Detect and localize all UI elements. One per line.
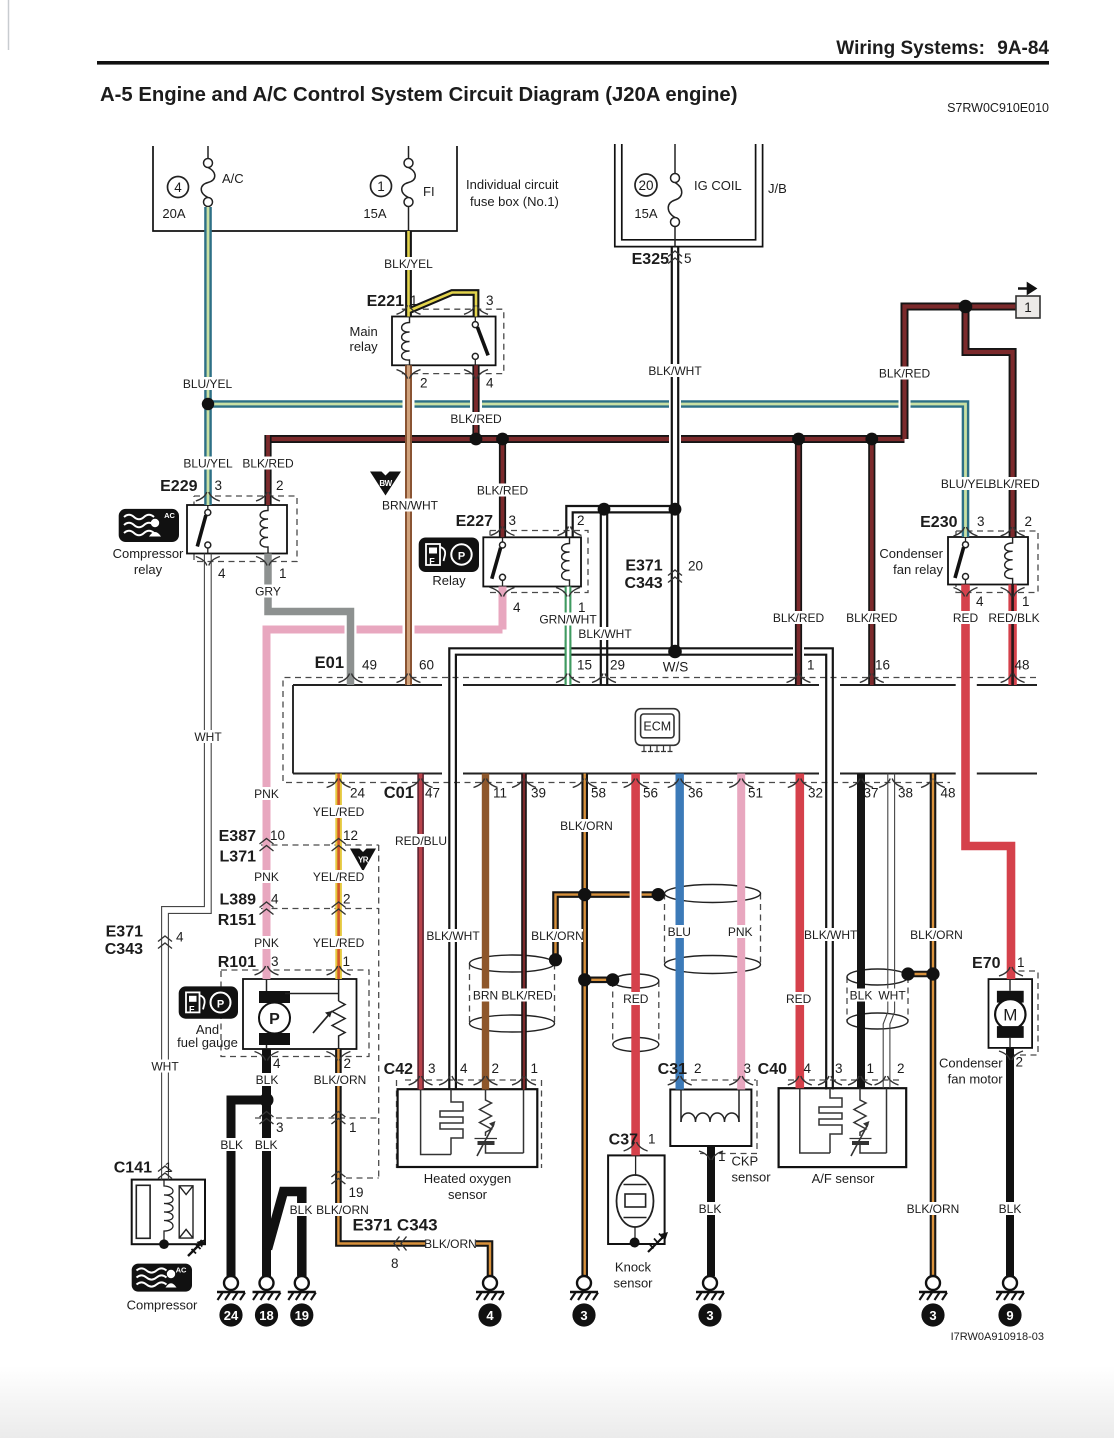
svg-text:A-5 Engine and A/C Control Sys: A-5 Engine and A/C Control System Circui… xyxy=(100,84,737,106)
svg-text:3: 3 xyxy=(580,1308,587,1323)
svg-text:4: 4 xyxy=(976,594,984,609)
svg-text:20: 20 xyxy=(638,178,653,193)
relay E229 coil-switch dashed link xyxy=(217,528,258,530)
relay E229 coil xyxy=(260,505,268,554)
wire BLK/ORN (ECM pin 48 to ground 3) xyxy=(930,774,937,1277)
svg-text:15A: 15A xyxy=(634,206,657,221)
ECM box edges (with pass-through gaps) xyxy=(293,685,1037,774)
wire RED (E230 pin 4 through ECM to E70 pin 1) xyxy=(966,585,1012,980)
wire BLK/RED E221 pin 4 to bus xyxy=(472,365,479,439)
svg-text:sensor: sensor xyxy=(448,1187,488,1202)
svg-text:BLK: BLK xyxy=(290,1203,313,1217)
svg-text:E230: E230 xyxy=(920,514,957,531)
svg-text:BLK/YEL: BLK/YEL xyxy=(384,257,433,271)
svg-text:4: 4 xyxy=(460,1061,468,1076)
wire GRY (E229 pin 1 to ECM pin 49) xyxy=(268,554,351,686)
relay E229 dashed outline xyxy=(194,496,297,562)
shield cylinder sides BLU/PNK xyxy=(665,894,761,965)
svg-text:3: 3 xyxy=(271,954,279,969)
fuel gauge sender R101 xyxy=(285,979,345,1049)
svg-text:4: 4 xyxy=(174,180,182,195)
label BLK/WHT c42 xyxy=(426,929,480,943)
svg-text:fan relay: fan relay xyxy=(893,562,943,577)
label BLK R101 pin4 xyxy=(254,1073,280,1087)
node ECM pin16 on bus xyxy=(865,433,878,446)
svg-text:YR: YR xyxy=(358,856,369,865)
svg-text:P: P xyxy=(269,1011,280,1028)
svg-text:32: 32 xyxy=(808,786,823,801)
wire BRN/WHT (E221 pin 2 to ECM pin 60) xyxy=(405,365,412,685)
svg-text:CKP: CKP xyxy=(732,1154,759,1169)
label BLK/RED shield xyxy=(501,989,553,1003)
svg-text:9A-84: 9A-84 xyxy=(997,38,1049,59)
svg-text:C343: C343 xyxy=(105,941,143,958)
wire GRN/WHT overlay at splice crossing xyxy=(565,640,572,685)
svg-text:E325: E325 xyxy=(632,251,669,268)
compressor relay E229 box xyxy=(187,505,287,554)
svg-text:BLK/ORN: BLK/ORN xyxy=(560,819,613,833)
svg-text:E227: E227 xyxy=(456,513,493,530)
label BLK/WHT pin29 xyxy=(578,627,632,641)
relay E230 coil xyxy=(1005,537,1013,585)
svg-text:BLK/RED: BLK/RED xyxy=(879,367,931,381)
node BLK/WHT branch E325 xyxy=(669,503,682,516)
svg-text:RED/BLU: RED/BLU xyxy=(395,834,447,848)
fuel pump R101 motor xyxy=(259,979,290,1049)
svg-text:fuse box (No.1): fuse box (No.1) xyxy=(470,194,559,209)
svg-text:I7RW0A910918-03: I7RW0A910918-03 xyxy=(951,1331,1044,1343)
wire BLK/RED bus xyxy=(268,435,905,443)
svg-text:YEL/RED: YEL/RED xyxy=(313,870,365,884)
connector L389 R151 dashed line xyxy=(261,908,379,910)
label BLK/RED pin16 xyxy=(846,611,898,625)
label BLK/ORN drain xyxy=(531,929,584,943)
svg-text:1: 1 xyxy=(578,600,586,615)
wire BLK/RED (ECM pin 39 to C42 pin 1) xyxy=(521,774,527,1090)
node BLK/WHT shield drain xyxy=(901,967,914,980)
relay E227 switch xyxy=(492,537,506,586)
svg-text:BLK/RED: BLK/RED xyxy=(501,989,553,1003)
svg-text:BLK/RED: BLK/RED xyxy=(846,611,898,625)
pin marks E01 row xyxy=(339,674,363,683)
label BLK/RED at E230 xyxy=(988,477,1040,491)
C42 connector dashed line xyxy=(405,1079,536,1081)
node BLK/ORN 48 stub xyxy=(926,967,939,980)
svg-text:2: 2 xyxy=(1016,1055,1024,1070)
label RED/BLK pin1 E230 xyxy=(988,611,1039,625)
svg-text:sensor: sensor xyxy=(613,1276,653,1291)
svg-text:2: 2 xyxy=(897,1061,905,1076)
svg-text:Condenser: Condenser xyxy=(879,546,943,561)
pin marks C42 3,4,2,1 xyxy=(409,1076,433,1085)
svg-text:BLK/ORN: BLK/ORN xyxy=(314,1073,367,1087)
svg-text:16: 16 xyxy=(875,658,890,673)
relay E230 switch xyxy=(955,537,969,585)
svg-text:WHT: WHT xyxy=(194,730,222,744)
relay E221 coil xyxy=(402,317,410,366)
relay E230 dashed outline xyxy=(956,531,1038,593)
shield cylinder RED xyxy=(613,974,659,988)
wire BRN (ECM pin 11 to C42 pin 2) xyxy=(482,774,489,1090)
node W/S splice xyxy=(668,645,682,659)
node BLU/YEL junction xyxy=(202,398,214,410)
pin marks E325 5 xyxy=(668,251,682,264)
svg-text:12: 12 xyxy=(343,828,358,843)
svg-text:10: 10 xyxy=(270,828,285,843)
relay E227 coil-switch dashed link xyxy=(512,562,558,564)
svg-text:4: 4 xyxy=(273,1056,281,1071)
BW triangle marker xyxy=(370,472,401,496)
svg-text:Individual circuit: Individual circuit xyxy=(466,177,559,192)
svg-text:BRN: BRN xyxy=(473,989,498,1003)
connector E387 L371 dashed line xyxy=(261,844,379,846)
label BLK/RED above bus xyxy=(450,412,502,426)
svg-text:YEL/RED: YEL/RED xyxy=(313,936,365,950)
pin marks R101 pigtail 3,1 xyxy=(260,1112,274,1125)
fuel pump icon at R101 xyxy=(179,986,238,1018)
svg-text:19: 19 xyxy=(349,1185,364,1200)
label BLK/RED at E227 xyxy=(477,484,529,498)
label BLK/YEL xyxy=(384,257,433,271)
svg-text:1: 1 xyxy=(377,179,385,194)
ground 18 xyxy=(253,1276,281,1327)
svg-text:1: 1 xyxy=(867,1061,875,1076)
svg-text:37: 37 xyxy=(864,786,879,801)
label BLK gnd18 xyxy=(253,1138,279,1152)
label BLK gnd24 xyxy=(219,1138,245,1152)
svg-text:GRY: GRY xyxy=(255,585,281,599)
wire PNK (ECM pin 51 to C31 pin 3) xyxy=(737,774,745,1090)
wire WHT (E229 pin 4 to C141 pin 1) xyxy=(162,554,212,1180)
svg-text:3: 3 xyxy=(929,1308,936,1323)
wire WHT (ECM pin 38 to C40 pin 2) xyxy=(883,774,894,1089)
svg-text:1: 1 xyxy=(531,1061,539,1076)
ground 3 (BLK/ORN 48) xyxy=(919,1276,947,1327)
svg-text:20: 20 xyxy=(688,559,703,574)
label BLK/RED pin1 xyxy=(773,611,825,625)
svg-text:1: 1 xyxy=(410,293,418,308)
A/C icon at compressor xyxy=(132,1264,192,1292)
svg-text:4: 4 xyxy=(176,930,184,945)
svg-text:51: 51 xyxy=(748,786,763,801)
svg-text:BLK/WHT: BLK/WHT xyxy=(578,627,632,641)
label RED shield xyxy=(622,992,650,1006)
svg-text:S7RW0C910E010: S7RW0C910E010 xyxy=(947,101,1049,115)
ground 9 xyxy=(996,1276,1024,1327)
label BLK CKP xyxy=(697,1202,723,1216)
label BLK/ORN horizontal xyxy=(424,1237,477,1251)
svg-text:BLK/RED: BLK/RED xyxy=(773,611,825,625)
svg-text:15: 15 xyxy=(577,658,592,673)
pin marks C31 2,3,1 xyxy=(668,1076,692,1085)
svg-text:PNK: PNK xyxy=(254,870,279,884)
ECM connector dashed outline E01/C01 xyxy=(283,678,1036,783)
svg-text:BLK: BLK xyxy=(255,1138,278,1152)
wire BLK/RED branch to E230 pin 2 xyxy=(966,307,1013,538)
svg-text:BLK/RED: BLK/RED xyxy=(242,457,294,471)
label BLK/ORN R101 pin2 xyxy=(314,1073,367,1087)
relay E227 dashed outline xyxy=(490,531,588,593)
wire BLK/ORN shield drain stub to RED shield xyxy=(585,976,613,983)
svg-text:F: F xyxy=(429,557,435,567)
wire PNK (E227 pin 4 to R101 pin 3) xyxy=(267,587,503,980)
svg-text:BLU/YEL: BLU/YEL xyxy=(183,377,233,391)
svg-text:A/C: A/C xyxy=(222,171,244,186)
wire BLK/RED bus to E227 pin 3 xyxy=(499,439,506,537)
wire BLK (C31 pin 1 to ground 3) xyxy=(707,1146,715,1276)
label PNK row3 xyxy=(253,936,280,950)
svg-text:RED/BLK: RED/BLK xyxy=(988,611,1039,625)
wire BLK branch to ground 19 xyxy=(268,1192,302,1277)
wire BLK/RED bus to E229 pin 2 xyxy=(264,435,271,505)
svg-text:38: 38 xyxy=(898,786,913,801)
svg-text:47: 47 xyxy=(425,786,440,801)
header: Wiring Systems: 9A-84 xyxy=(97,38,1049,65)
svg-text:BRN/WHT: BRN/WHT xyxy=(382,499,439,513)
svg-text:BLK: BLK xyxy=(699,1202,722,1216)
svg-text:3: 3 xyxy=(509,513,517,528)
svg-text:4: 4 xyxy=(513,600,521,615)
knock sensor C37 box xyxy=(608,1155,665,1244)
svg-text:WHT: WHT xyxy=(878,989,906,1003)
svg-text:4: 4 xyxy=(486,1308,494,1323)
svg-text:1: 1 xyxy=(1024,300,1032,315)
svg-text:sensor: sensor xyxy=(732,1170,772,1185)
svg-text:RED: RED xyxy=(786,992,812,1006)
CKP sensor C31 coil xyxy=(681,1090,739,1147)
svg-text:3: 3 xyxy=(977,514,985,529)
svg-text:L371: L371 xyxy=(220,849,257,866)
svg-text:3: 3 xyxy=(215,478,223,493)
node ECM pin1 on bus xyxy=(792,433,805,446)
label BLK/ORN 58 xyxy=(560,819,613,833)
pin marks L389 R151 4,2 xyxy=(260,902,274,915)
svg-text:Knock: Knock xyxy=(615,1260,652,1275)
label BLU/YEL upper xyxy=(183,377,233,391)
C31 connector dashed line xyxy=(670,1080,757,1154)
svg-text:5: 5 xyxy=(684,251,692,266)
svg-text:3: 3 xyxy=(744,1061,752,1076)
chassis ground arrow at C37 xyxy=(648,1232,668,1252)
svg-text:15A: 15A xyxy=(363,206,386,221)
wire YEL/RED (ECM pin 24 to R101 pin 1) xyxy=(335,774,342,980)
svg-text:BLK/WHT: BLK/WHT xyxy=(426,929,480,943)
svg-text:20A: 20A xyxy=(162,206,185,221)
shield cylinder BLK/WHT xyxy=(847,969,908,985)
heated oxygen sensor box xyxy=(398,1089,538,1167)
svg-text:BW: BW xyxy=(379,479,392,488)
label RED pin4 E230 xyxy=(952,611,980,625)
wire BLK (E70 pin 2 to ground 9) xyxy=(1006,1048,1014,1276)
pin marks E227 3,2,4,1 xyxy=(491,527,515,536)
fuel pump R101 box xyxy=(243,979,357,1049)
svg-text:PNK: PNK xyxy=(254,936,279,950)
label WHT shield xyxy=(877,989,907,1003)
wire BLK/WHT (IG coil E325 to W/S splice) xyxy=(672,247,678,652)
ground 4 xyxy=(476,1276,504,1327)
svg-text:3: 3 xyxy=(428,1061,436,1076)
node BLK/RED top branch xyxy=(959,300,973,314)
svg-text:BLU: BLU xyxy=(668,925,691,939)
node BLK/ORN 58 lower branch xyxy=(578,973,591,986)
node RED shield drain xyxy=(606,973,619,986)
pin marks E221 1,3,2,4 xyxy=(397,305,421,314)
relay E227 coil xyxy=(562,537,570,586)
svg-text:3: 3 xyxy=(486,293,494,308)
pin marks C141 1 xyxy=(158,1166,172,1179)
label BRN shield xyxy=(472,989,499,1003)
ground 3 (CKP) xyxy=(696,1276,724,1327)
svg-text:1: 1 xyxy=(1017,955,1025,970)
pin marks E230 3,2,4,1 xyxy=(954,527,978,536)
svg-text:1: 1 xyxy=(1022,594,1030,609)
svg-text:BLK/ORN: BLK/ORN xyxy=(424,1237,477,1251)
svg-text:BLK/WHT: BLK/WHT xyxy=(648,364,702,378)
svg-text:E371: E371 xyxy=(625,558,662,575)
svg-text:BLK: BLK xyxy=(999,1202,1022,1216)
svg-text:E01: E01 xyxy=(315,654,344,672)
label WHT lower xyxy=(150,1060,180,1074)
svg-text:BLK/WHT: BLK/WHT xyxy=(804,928,858,942)
svg-text:C343: C343 xyxy=(624,575,662,592)
label BLK/ORN 19 xyxy=(316,1203,369,1217)
svg-text:fan motor: fan motor xyxy=(948,1072,1004,1087)
node BLK/WHT branch 29 xyxy=(598,503,611,516)
wire GRN/WHT (E227 pin 1 to ECM pin 15) xyxy=(565,587,572,686)
label RED/BLU xyxy=(395,834,447,848)
wire BLK/ORN (R101 pin 2 to ground 4) xyxy=(338,1049,490,1276)
svg-text:IG COIL: IG COIL xyxy=(694,178,742,193)
svg-text:4: 4 xyxy=(486,376,494,391)
label WHT upper xyxy=(193,730,223,744)
svg-text:RED: RED xyxy=(623,992,649,1006)
svg-text:E387: E387 xyxy=(219,828,256,845)
svg-text:relay: relay xyxy=(134,562,163,577)
A/F sensor internals xyxy=(800,1088,887,1156)
pin marks E371 C343 8 (horizontal) xyxy=(394,1237,407,1251)
node E227 pin3 on bus xyxy=(496,433,509,446)
label BLK E70 xyxy=(997,1202,1023,1216)
svg-text:1: 1 xyxy=(165,1160,173,1175)
svg-text:BLK: BLK xyxy=(256,1073,279,1087)
wire BLK/WHT (E227 pin 2 branch) xyxy=(566,506,675,537)
E70 dashed outline xyxy=(1008,971,1038,1055)
label BLU/YEL at E230 xyxy=(941,477,991,491)
svg-text:1: 1 xyxy=(807,658,815,673)
node BLU/PNK shield drain xyxy=(652,888,665,901)
shield cylinder sides BLK/WHT xyxy=(847,977,908,1021)
svg-text:R151: R151 xyxy=(218,912,256,929)
ground 3 (BLK/ORN 58) xyxy=(570,1276,598,1327)
shield cylinder sides BRN/BLKRED xyxy=(470,964,555,1024)
svg-text:48: 48 xyxy=(1015,658,1030,673)
node E221 pin4 on bus xyxy=(470,433,483,446)
svg-text:Compressor: Compressor xyxy=(127,1298,198,1313)
svg-text:2: 2 xyxy=(420,376,428,391)
svg-text:AC: AC xyxy=(176,1266,187,1275)
wire BLK/WHT splice bus through ECM to C42 pin 4 xyxy=(449,648,833,1089)
svg-text:Condenser: Condenser xyxy=(939,1056,1003,1071)
svg-text:24: 24 xyxy=(350,786,366,801)
relay E221 switch xyxy=(472,317,488,366)
svg-text:FI: FI xyxy=(423,184,435,199)
label BLU shield xyxy=(666,925,692,939)
fuse 20 15A IG COIL xyxy=(668,144,682,247)
fuse 1 15A FI xyxy=(402,146,416,231)
svg-text:1: 1 xyxy=(349,1120,357,1135)
svg-text:BLK/ORN: BLK/ORN xyxy=(907,1202,960,1216)
svg-text:58: 58 xyxy=(591,786,606,801)
svg-text:2: 2 xyxy=(577,513,585,528)
svg-text:R101: R101 xyxy=(218,954,256,971)
label BLK shield xyxy=(848,989,874,1003)
wire BLU (ECM pin 36 to C31 pin 2) xyxy=(676,774,684,1090)
label YEL/RED row3 xyxy=(313,936,365,950)
svg-text:36: 36 xyxy=(688,786,703,801)
svg-text:RED: RED xyxy=(953,611,979,625)
fuel pump icon at relay E227 xyxy=(419,538,479,573)
svg-text:Wiring Systems:: Wiring Systems: xyxy=(836,38,985,59)
shield cylinder BRN/BLKRED xyxy=(470,955,555,972)
compressor clutch C141 internals xyxy=(136,1180,193,1241)
svg-text:BLK: BLK xyxy=(850,989,873,1003)
label BLK/WHT E325 xyxy=(648,364,702,378)
svg-text:9: 9 xyxy=(1006,1308,1013,1323)
knock sensor C37 internals xyxy=(617,1155,654,1240)
pin marks C01 row xyxy=(327,779,351,788)
svg-text:YEL/RED: YEL/RED xyxy=(313,805,365,819)
relay E229 switch xyxy=(197,505,211,554)
condenser fan motor E70 internals xyxy=(995,979,1025,1048)
svg-text:1: 1 xyxy=(279,566,287,581)
svg-text:P: P xyxy=(217,999,224,1011)
svg-text:1: 1 xyxy=(718,1149,726,1164)
node BLK ground branch xyxy=(260,1093,274,1107)
svg-text:2: 2 xyxy=(492,1061,500,1076)
ground 24 xyxy=(217,1276,245,1327)
svg-text:49: 49 xyxy=(362,658,377,673)
svg-text:39: 39 xyxy=(531,786,546,801)
svg-text:8: 8 xyxy=(391,1256,399,1271)
svg-text:Main: Main xyxy=(350,324,378,339)
shield cylinder sides RED xyxy=(613,981,659,1045)
wire RED/BLU (ECM pin 47 to C42 pin 3) xyxy=(417,774,424,1090)
svg-text:3: 3 xyxy=(276,1120,284,1135)
svg-text:60: 60 xyxy=(419,658,434,673)
dashed link line x=378.7 xyxy=(346,845,379,1178)
relay E221 coil-switch dashed link xyxy=(418,339,466,341)
label BLK/ORN 48 xyxy=(910,928,963,942)
label BLK gnd19 xyxy=(288,1203,314,1217)
heated oxygen sensor internals xyxy=(421,1090,524,1157)
wire BLK/ORN shield drain branch left xyxy=(556,895,585,957)
shield cylinder BLU/PNK xyxy=(665,885,761,903)
junction block J/B (IG coil fuse box) xyxy=(615,144,763,247)
svg-text:2: 2 xyxy=(276,478,284,493)
svg-text:29: 29 xyxy=(610,658,625,673)
label BLK/RED riser xyxy=(879,367,931,381)
svg-text:1: 1 xyxy=(343,954,351,969)
relay E230 coil-switch dashed link xyxy=(975,560,1002,562)
label PNK row1 xyxy=(253,787,280,801)
svg-text:18: 18 xyxy=(259,1308,273,1323)
A/C icon at compressor relay xyxy=(119,509,179,542)
svg-text:BLK/ORN: BLK/ORN xyxy=(531,929,584,943)
wire BLK/ORN shield drain branch right xyxy=(585,891,659,898)
svg-text:4: 4 xyxy=(218,566,226,581)
svg-text:P: P xyxy=(458,551,465,563)
svg-text:Relay: Relay xyxy=(432,573,466,588)
